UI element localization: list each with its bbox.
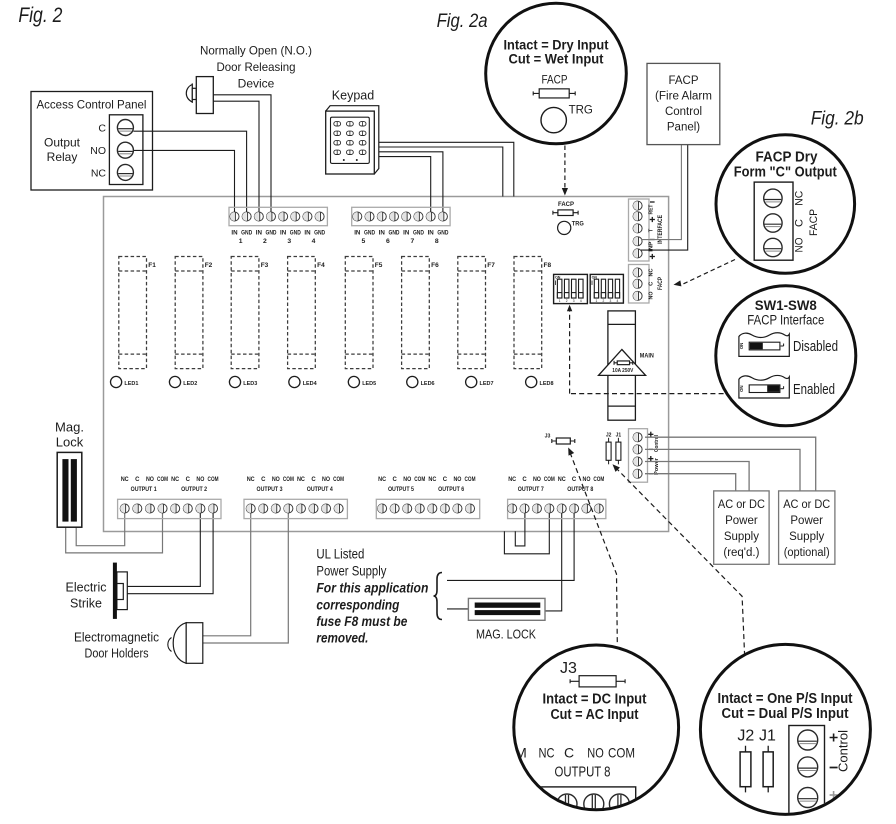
DIP switch block SW1-SW4	[554, 274, 588, 303]
Control/Power terminal strip	[629, 429, 660, 483]
ACP relay screw NO	[117, 142, 133, 158]
LED6	[407, 376, 436, 387]
svg-text:NC: NC	[558, 477, 567, 483]
svg-text:MAIN: MAIN	[640, 352, 654, 359]
Electromagnetic Door Holders label	[74, 631, 159, 661]
svg-text:Control: Control	[665, 106, 702, 118]
svg-text:LED3: LED3	[243, 381, 258, 387]
svg-text:C: C	[572, 477, 577, 483]
LED7	[466, 376, 494, 387]
svg-text:F5: F5	[375, 262, 383, 269]
svg-text:Electric: Electric	[66, 581, 107, 595]
svg-text:COM: COM	[208, 477, 219, 483]
svg-text:removed.: removed.	[316, 630, 368, 646]
svg-text:IN: IN	[280, 230, 287, 237]
svg-text:Normally Open (N.O.): Normally Open (N.O.)	[200, 44, 312, 58]
svg-text:NC: NC	[297, 477, 306, 483]
FACP (Fire Alarm Control Panel) box	[647, 63, 720, 144]
svg-text:NO: NO	[90, 145, 106, 157]
svg-text:OUTPUT 2: OUTPUT 2	[181, 487, 208, 493]
svg-text:Relay: Relay	[47, 150, 78, 164]
svg-text:NC: NC	[508, 477, 517, 483]
svg-text:NO: NO	[403, 477, 411, 483]
svg-text:NC: NC	[247, 477, 256, 483]
svg-text:Fig. 2b: Fig. 2b	[811, 109, 864, 130]
svg-text:C: C	[564, 745, 574, 761]
svg-text:Supply: Supply	[789, 531, 824, 543]
wire loop COM7	[504, 508, 549, 554]
svg-text:F1: F1	[148, 262, 156, 269]
svg-text:TRG: TRG	[572, 221, 584, 228]
svg-text:LED7: LED7	[480, 381, 494, 387]
svg-text:OUTPUT 1: OUTPUT 1	[131, 487, 158, 493]
svg-text:FACP Interface: FACP Interface	[747, 313, 824, 328]
LED5	[348, 376, 377, 387]
svg-text:GND: GND	[364, 230, 375, 237]
svg-text:1: 1	[596, 299, 598, 303]
SW1-SW8 blowup circle	[716, 286, 856, 426]
jumper J2 blowup	[740, 746, 751, 793]
svg-text:Intact = One P/S Input: Intact = One P/S Input	[718, 691, 853, 707]
Electric Strike label	[66, 581, 107, 611]
svg-text:C: C	[98, 122, 106, 134]
svg-text:FACP: FACP	[657, 277, 664, 290]
jumper J2 on board	[606, 433, 612, 465]
Mag. Lock label	[55, 420, 84, 450]
output terminal strip OUTPUT 3/OUTPUT 4	[244, 477, 347, 519]
svg-text:COM: COM	[157, 477, 168, 483]
svg-text:(optional): (optional)	[784, 547, 830, 559]
DIP icon enabled	[739, 375, 835, 398]
wire FACP box to INP+	[641, 145, 688, 251]
svg-text:NO: NO	[272, 477, 280, 483]
svg-text:GND: GND	[388, 230, 399, 237]
svg-text:For this application: For this application	[316, 580, 428, 596]
svg-text:IN: IN	[354, 230, 361, 237]
svg-text:RET: RET	[648, 204, 654, 214]
jumper J3 on board	[545, 434, 575, 445]
svg-text:OUTPUT 7: OUTPUT 7	[518, 487, 545, 493]
ACP relay screw NC	[117, 164, 133, 180]
svg-text:NC: NC	[378, 477, 387, 483]
svg-text:NO: NO	[793, 237, 805, 252]
svg-text:NO: NO	[648, 291, 654, 299]
svg-text:AC or DC: AC or DC	[718, 499, 765, 511]
svg-text:4: 4	[580, 299, 582, 303]
svg-text:Cut = Dual P/S Input: Cut = Dual P/S Input	[722, 706, 849, 722]
svg-text:10A 250V: 10A 250V	[612, 368, 634, 374]
Access Control Panel box	[31, 92, 153, 191]
terminal strip inputs 5-8	[352, 207, 450, 245]
svg-text:6: 6	[386, 238, 390, 245]
wire Power- to required supply	[645, 474, 736, 491]
fuse F3	[231, 257, 268, 369]
svg-text:Fig. 2: Fig. 2	[18, 3, 62, 27]
svg-text:NO: NO	[196, 477, 204, 483]
svg-text:J2: J2	[606, 433, 612, 439]
fuse F1	[119, 257, 156, 369]
svg-text:NC: NC	[648, 268, 654, 277]
LED4	[289, 376, 318, 387]
wire Power+ to required supply	[645, 462, 749, 491]
wire C8 to brace	[447, 508, 574, 580]
svg-text:(Fire Alarm: (Fire Alarm	[655, 91, 712, 103]
svg-text:Fig. 2a: Fig. 2a	[437, 10, 488, 32]
svg-text:ON: ON	[739, 343, 744, 350]
svg-text:COM: COM	[465, 477, 476, 483]
svg-text:Electromagnetic: Electromagnetic	[74, 631, 159, 645]
svg-text:OUTPUT 5: OUTPUT 5	[388, 487, 415, 493]
dashed arrow Fig.2a to board FACP	[562, 146, 568, 196]
svg-text:IN: IN	[379, 230, 386, 237]
wire mag lock to COM1	[66, 508, 163, 553]
jumper J1 blowup	[763, 746, 773, 793]
wire mag lock to NC1	[76, 508, 125, 546]
svg-text:LED1: LED1	[124, 381, 139, 387]
svg-text:Power: Power	[790, 515, 823, 527]
svg-text:COM: COM	[593, 477, 604, 483]
svg-text:GND: GND	[241, 230, 252, 237]
svg-text:GND: GND	[437, 230, 448, 237]
svg-text:Power: Power	[725, 515, 758, 527]
svg-text:corresponding: corresponding	[316, 597, 399, 613]
svg-text:C: C	[793, 219, 805, 227]
svg-text:NC: NC	[171, 477, 180, 483]
svg-text:OUTPUT 8: OUTPUT 8	[567, 487, 594, 493]
svg-text:7: 7	[410, 238, 414, 245]
wire keypad 2	[374, 147, 503, 197]
FACP TRG jumper on board	[553, 201, 584, 234]
svg-text:AC or DC: AC or DC	[783, 499, 830, 511]
wire loop C7	[515, 508, 525, 546]
svg-text:3: 3	[287, 238, 291, 245]
FACP dry screw C	[764, 214, 782, 232]
Fig.2a blowup circle: FACP TRG jumper	[486, 3, 627, 144]
svg-text:F6: F6	[431, 262, 439, 269]
MAIN fuse	[599, 311, 654, 420]
svg-text:NC: NC	[428, 477, 437, 483]
svg-text:FACP Dry: FACP Dry	[756, 150, 818, 166]
fuse F8	[514, 257, 551, 369]
svg-text:Enabled: Enabled	[793, 381, 835, 398]
svg-text:IN: IN	[428, 230, 435, 237]
svg-text:J1: J1	[759, 728, 776, 745]
svg-text:F2: F2	[205, 262, 213, 269]
svg-text:1: 1	[559, 299, 561, 303]
dashed leader to One P/S circle	[610, 462, 745, 662]
fuse F5	[345, 257, 382, 369]
svg-text:NC: NC	[793, 191, 805, 206]
svg-text:5: 5	[362, 238, 366, 245]
svg-text:F8: F8	[544, 262, 552, 269]
svg-text:Door Releasing: Door Releasing	[217, 60, 296, 74]
svg-text:COM: COM	[283, 477, 294, 483]
svg-text:Output: Output	[44, 136, 81, 150]
svg-text:Supply: Supply	[724, 531, 759, 543]
svg-text:J3: J3	[560, 660, 577, 677]
svg-text:Control: Control	[836, 730, 851, 772]
svg-text:LED5: LED5	[362, 381, 377, 387]
svg-text:2: 2	[263, 238, 267, 245]
svg-text:8: 8	[435, 238, 439, 245]
fuse F6	[402, 257, 439, 369]
svg-text:NC: NC	[539, 745, 555, 761]
DIP icon disabled	[739, 333, 838, 357]
FACP output strip NO C NC	[629, 265, 664, 304]
svg-text:2: 2	[603, 299, 605, 303]
wire strike to NO2	[123, 508, 200, 586]
svg-text:GND: GND	[314, 230, 325, 237]
svg-text:C: C	[261, 477, 266, 483]
brace	[434, 573, 443, 620]
svg-text:Device: Device	[238, 77, 275, 91]
fuse F4	[288, 257, 325, 369]
svg-text:F4: F4	[317, 262, 325, 269]
output terminal strip OUTPUT 5/OUTPUT 6	[376, 477, 479, 519]
wire Control- to optional supply	[645, 449, 800, 491]
svg-text:C: C	[443, 477, 448, 483]
svg-text:Form "C" Output: Form "C" Output	[734, 165, 837, 181]
LED3	[229, 376, 258, 387]
wire ACP NO to IN1	[133, 150, 234, 213]
svg-text:1: 1	[239, 238, 243, 245]
svg-text:(req'd.): (req'd.)	[723, 547, 759, 559]
wire Control+ to optional supply	[645, 437, 816, 491]
MAG. LOCK device	[468, 598, 545, 641]
svg-text:FACP: FACP	[808, 209, 820, 236]
svg-text:LED2: LED2	[183, 381, 197, 387]
svg-text:Cut = AC Input: Cut = AC Input	[551, 707, 639, 723]
svg-text:COM: COM	[608, 745, 635, 761]
DIP switch block SW5-SW8	[590, 274, 623, 303]
svg-text:LED8: LED8	[540, 381, 555, 387]
Mag. Lock device	[57, 452, 82, 527]
svg-text:3: 3	[610, 299, 612, 303]
LED8	[526, 376, 555, 387]
output terminal strip OUTPUT 1/OUTPUT 2	[118, 477, 221, 519]
svg-text:OUTPUT 6: OUTPUT 6	[438, 487, 465, 493]
svg-text:ON: ON	[739, 385, 744, 392]
svg-text:F3: F3	[261, 262, 269, 269]
wire device to IN2	[213, 101, 259, 213]
wire keypad 3 to GND8	[374, 152, 443, 213]
svg-text:C: C	[522, 477, 527, 483]
FACP dry screw NO	[764, 238, 782, 256]
wire keypad 4 to IN8	[374, 157, 430, 213]
svg-text:C: C	[311, 477, 316, 483]
N.O. door releasing device label	[200, 44, 312, 91]
svg-text:Power: Power	[654, 457, 660, 475]
dashed line SW circle to DIP switches	[567, 305, 724, 394]
svg-text:Power Supply: Power Supply	[316, 564, 386, 579]
wire strike to COM2	[123, 508, 213, 594]
svg-text:FACP: FACP	[668, 75, 698, 87]
svg-text:GND: GND	[290, 230, 301, 237]
Electromagnetic door holder device	[168, 623, 203, 664]
svg-text:Cut = Wet Input: Cut = Wet Input	[509, 51, 604, 67]
svg-text:GND: GND	[413, 230, 424, 237]
wire keypad 1	[374, 142, 514, 196]
svg-text:J1: J1	[616, 433, 622, 439]
FACP dry screw NC	[764, 189, 782, 207]
svg-text:NC: NC	[121, 477, 130, 483]
terminal strip inputs 1-4	[229, 207, 327, 245]
J3 circle screws OUTPUT8	[557, 794, 577, 814]
svg-text:Keypad: Keypad	[332, 89, 374, 103]
ACP relay screw C	[117, 120, 133, 136]
svg-text:IN: IN	[231, 230, 238, 237]
svg-text:C: C	[186, 477, 191, 483]
fuse F2	[175, 257, 212, 369]
svg-text:NO: NO	[533, 477, 541, 483]
svg-text:FACP: FACP	[558, 201, 575, 208]
Keypad	[326, 106, 379, 174]
svg-text:C: C	[135, 477, 140, 483]
control terminal block blowup	[789, 726, 825, 816]
svg-text:Strike: Strike	[70, 597, 102, 611]
svg-text:COM: COM	[414, 477, 425, 483]
svg-text:COM: COM	[333, 477, 344, 483]
svg-text:Disabled: Disabled	[793, 338, 838, 355]
dashed arrow Fig.2b to FACP strip	[673, 260, 735, 288]
Electric Strike device	[113, 563, 127, 619]
UL listed power supply note	[316, 547, 428, 646]
wire mag lock left stub	[447, 608, 468, 610]
svg-text:4: 4	[312, 238, 316, 245]
svg-text:J3: J3	[545, 434, 551, 440]
wire FACP box to INP-	[641, 145, 681, 240]
svg-text:4: 4	[617, 299, 619, 303]
wire NC8 to mag lock	[545, 508, 562, 611]
output terminal strip OUTPUT 7/OUTPUT 8	[508, 477, 606, 519]
svg-text:NO: NO	[322, 477, 330, 483]
svg-text:IN: IN	[403, 230, 410, 237]
dashed leader to J3 circle	[565, 446, 617, 643]
INTERFACE labels	[648, 202, 664, 259]
svg-text:FACP: FACP	[542, 75, 568, 87]
wire device to GND2	[213, 95, 271, 213]
svg-text:3: 3	[573, 299, 575, 303]
svg-text:T: T	[648, 228, 654, 232]
LED1	[111, 376, 140, 387]
svg-text:Intact = DC Input: Intact = DC Input	[543, 692, 647, 708]
svg-text:COM: COM	[544, 477, 555, 483]
wire ACP C to GND1	[133, 131, 246, 213]
main controller board outline	[104, 197, 669, 532]
svg-text:IN: IN	[304, 230, 311, 237]
svg-text:Access Control Panel: Access Control Panel	[37, 98, 147, 112]
svg-text:fuse F8 must be: fuse F8 must be	[316, 613, 407, 629]
svg-text:J2: J2	[737, 728, 754, 745]
svg-text:2: 2	[566, 299, 568, 303]
svg-text:NO: NO	[453, 477, 461, 483]
svg-text:Mag.: Mag.	[55, 420, 84, 435]
svg-text:Panel): Panel)	[667, 122, 700, 134]
svg-text:LED6: LED6	[421, 381, 436, 387]
fuse F7	[458, 257, 495, 369]
svg-text:NO: NO	[587, 745, 604, 761]
svg-text:MAG. LOCK: MAG. LOCK	[476, 628, 537, 642]
svg-text:OUTPUT 4: OUTPUT 4	[307, 487, 334, 493]
svg-text:OUTPUT 8: OUTPUT 8	[555, 764, 611, 781]
Fig.2b blowup circle: FACP dry form C output	[716, 135, 855, 274]
jumper J1 on board	[616, 433, 622, 465]
svg-text:Door Holders: Door Holders	[85, 647, 149, 661]
AC or DC power supply (optional) box	[779, 491, 835, 564]
svg-text:C: C	[392, 477, 397, 483]
N.O. door releasing device	[186, 77, 213, 114]
svg-text:GND: GND	[265, 230, 276, 237]
svg-text:TRG: TRG	[569, 105, 593, 117]
svg-text:NC: NC	[91, 167, 107, 179]
wire holder to NC3	[203, 508, 251, 636]
svg-text:SW1-SW8: SW1-SW8	[755, 297, 817, 313]
svg-text:IN: IN	[256, 230, 263, 237]
LED2	[169, 376, 197, 387]
svg-text:F7: F7	[487, 262, 495, 269]
AC or DC power supply (required) box	[714, 491, 769, 564]
wire holder to COM3	[203, 508, 288, 643]
FACP dry labels	[793, 191, 820, 253]
svg-text:LED4: LED4	[303, 381, 318, 387]
svg-text:NO: NO	[146, 477, 154, 483]
INTERFACE terminal strip	[629, 199, 650, 261]
svg-text:NO: NO	[582, 477, 590, 483]
svg-text:Lock: Lock	[56, 435, 84, 450]
svg-text:OUTPUT 3: OUTPUT 3	[257, 487, 284, 493]
svg-text:UL Listed: UL Listed	[316, 547, 364, 562]
